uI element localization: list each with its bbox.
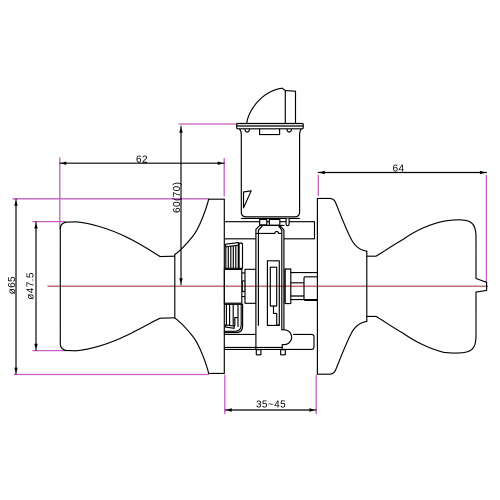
spindle plate stair — [274, 306, 280, 325]
shaft block S3 — [304, 277, 317, 301]
right knob neck junction — [366, 251, 368, 321]
dim 62 line — [60, 162, 224, 164]
svg-text:62: 62 — [136, 154, 148, 165]
dim dia47.5 line — [35, 222, 37, 350]
column top inner line with bump — [256, 231, 282, 233]
bottom foot 1 — [256, 350, 261, 355]
column right inner wall — [281, 230, 283, 329]
cam semicircle — [282, 330, 292, 350]
dim 60(70) line — [180, 126, 182, 285]
extension line magenta h y=198.8 — [13, 198, 209, 200]
shaft sleeve P1 — [291, 273, 318, 300]
spindle column funnel chamfers — [256, 225, 284, 231]
shaft waist P3 — [291, 283, 304, 296]
extension line magenta v x=486.4 — [485, 175, 487, 282]
extension line magenta h y=350.6 — [33, 350, 68, 352]
extension line magenta v x=318.3 — [317, 175, 319, 196]
svg-text:ø47.5: ø47.5 — [26, 272, 37, 300]
extension line magenta v x=59.8 — [59, 158, 61, 230]
right knob body — [367, 220, 487, 353]
svg-text:ø65: ø65 — [7, 276, 18, 294]
right rose back face — [316, 198, 318, 374]
shaft step S1 — [285, 269, 291, 304]
extension line magenta v x=316.2 bottom — [315, 375, 317, 415]
svg-text:64: 64 — [393, 163, 405, 174]
extension line magenta h y=124 faceplate level — [179, 123, 237, 125]
latch case screw ear left — [245, 129, 249, 132]
spring bottom coils — [226, 305, 238, 327]
hub rect A — [224, 269, 242, 303]
bottom foot 2 — [281, 350, 286, 355]
column left outer wall — [255, 229, 257, 349]
left knob body — [60, 222, 175, 351]
column top edge — [261, 224, 285, 226]
latch case notch — [260, 129, 280, 135]
extension line magenta v x=224.2 — [223, 158, 225, 197]
dim 35~45 arrows — [225, 408, 232, 411]
mounting tab 2 — [269, 219, 280, 225]
bottom plate — [224, 334, 314, 349]
hub connector — [242, 281, 245, 292]
dim 64 line — [318, 172, 486, 174]
dim 64 arrows — [318, 171, 325, 174]
column right outer wall — [283, 230, 285, 330]
hub rect B — [245, 269, 256, 303]
spring top cap — [226, 243, 239, 247]
svg-text:60(70): 60(70) — [172, 182, 183, 213]
svg-text:35~45: 35~45 — [256, 400, 286, 411]
right rose skirt — [317, 198, 366, 374]
extension line magenta v x=224.8 bottom — [224, 375, 226, 415]
hub connector lines — [242, 273, 245, 297]
extension line magenta h y=374.5 — [14, 374, 209, 376]
extension line magenta h y=221.6 — [33, 221, 67, 223]
dim 62 arrows — [60, 162, 67, 165]
spring top coils — [226, 246, 239, 268]
left knob neck junction — [174, 254, 176, 318]
spring top bracket bar — [239, 243, 242, 268]
latch case wedge mark — [244, 191, 252, 208]
spindle plate inner rect — [270, 267, 276, 306]
spring bottom seat line — [224, 303, 242, 305]
latch case bottom line — [241, 217, 299, 219]
left rose skirt — [175, 199, 224, 373]
spring bottom bracket elbow — [224, 304, 242, 332]
spring bottom cap — [226, 325, 235, 328]
dim dia65 line — [15, 199, 17, 374]
chassis top plate — [224, 222, 314, 239]
spindle plate — [267, 261, 279, 326]
mounting tab 1 — [260, 219, 267, 224]
mounting tab 3 rounded — [286, 219, 289, 226]
dim 35~45 line — [225, 409, 316, 411]
dim dia47.5 arrows — [34, 222, 37, 229]
latch faceplate — [237, 124, 304, 129]
latch bolt (beveled, plan view) — [247, 88, 296, 123]
left rose front face — [223, 199, 225, 373]
dim dia65 arrows — [14, 199, 17, 206]
column left inner wall — [257, 230, 259, 325]
spring top seat line — [224, 267, 242, 269]
latch case screw ear right — [287, 129, 291, 132]
latch case body — [240, 129, 302, 217]
centerline (red) — [48, 285, 489, 287]
dim 60(70) arrows — [179, 126, 182, 133]
